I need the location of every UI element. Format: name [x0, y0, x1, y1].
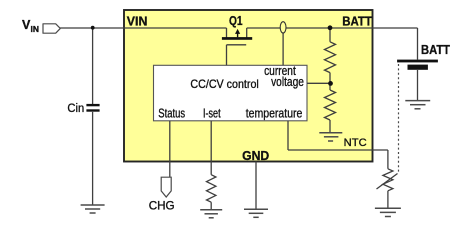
- svg-text:BATT: BATT: [421, 43, 450, 57]
- svg-text:voltage: voltage: [271, 74, 304, 89]
- svg-text:CC/CV control: CC/CV control: [190, 77, 258, 91]
- svg-text:I-set: I-set: [203, 105, 221, 120]
- svg-text:NTC: NTC: [344, 137, 367, 149]
- svg-text:CHG: CHG: [149, 198, 175, 212]
- svg-text:GND: GND: [242, 148, 269, 163]
- svg-text:Q1: Q1: [229, 13, 243, 28]
- svg-text:BATT: BATT: [342, 14, 372, 28]
- svg-text:Cin: Cin: [67, 101, 84, 115]
- svg-text:IN: IN: [31, 24, 40, 34]
- svg-text:temperature: temperature: [246, 105, 303, 120]
- svg-text:VIN: VIN: [127, 14, 148, 28]
- svg-text:Status: Status: [158, 105, 185, 120]
